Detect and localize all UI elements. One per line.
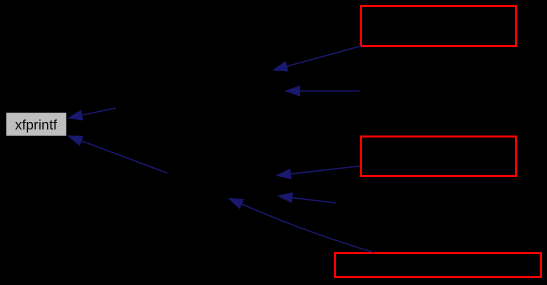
svg-text:xfprintf: xfprintf	[15, 117, 57, 133]
